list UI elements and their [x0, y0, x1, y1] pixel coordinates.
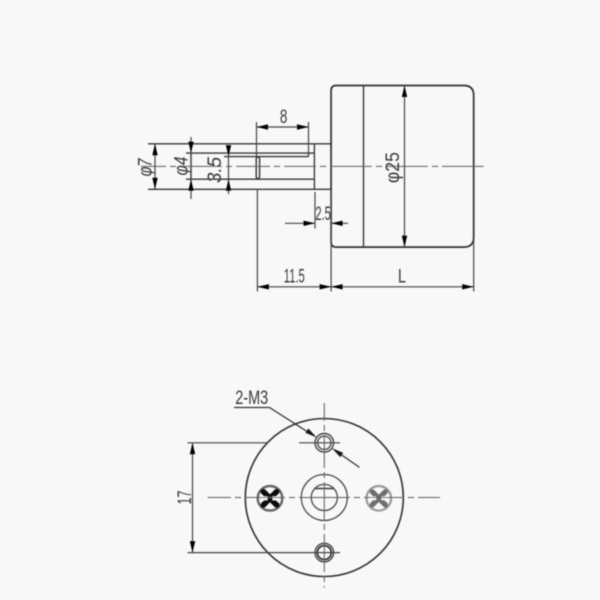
svg-text:φ7: φ7	[135, 157, 156, 176]
svg-text:17: 17	[175, 491, 196, 505]
svg-text:3.5: 3.5	[205, 157, 226, 183]
svg-text:11.5: 11.5	[284, 267, 305, 288]
svg-text:2.5: 2.5	[315, 204, 331, 225]
svg-text:2-M3: 2-M3	[235, 388, 268, 409]
svg-text:φ4: φ4	[172, 157, 193, 176]
svg-text:L: L	[398, 267, 406, 288]
svg-text:φ25: φ25	[383, 152, 404, 183]
svg-text:8: 8	[280, 107, 288, 128]
